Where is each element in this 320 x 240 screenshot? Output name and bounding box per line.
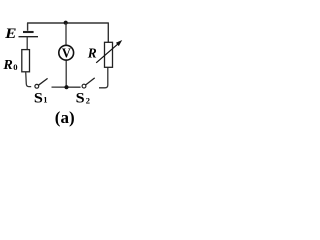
wire: middle branch upper (junction to voltmeter) (65, 23, 67, 46)
resistor R0 box (22, 50, 30, 72)
wire: top horizontal (28, 23, 109, 42)
background (0, 0, 128, 129)
rheostat R arrow (96, 42, 120, 63)
rheostat R box (105, 42, 113, 67)
svg-text:R: R (87, 45, 97, 60)
switch S1 lever (39, 78, 48, 85)
svg-text:1: 1 (43, 95, 47, 105)
node: bottom junction dot (64, 85, 68, 89)
svg-text:S: S (34, 90, 43, 106)
battery E plate long thin (19, 36, 39, 38)
svg-text:R: R (2, 57, 12, 73)
svg-text:(a): (a) (55, 108, 75, 127)
wire: R0 box to bottom-left corner (26, 72, 32, 87)
rheostat arrowhead (116, 40, 122, 46)
battery E plate short thick (23, 31, 34, 33)
svg-text:2: 2 (86, 95, 90, 105)
svg-text:V: V (62, 45, 72, 61)
wire: S2 to bottom-right corner (99, 68, 108, 88)
switch S2 contact circle (82, 84, 86, 88)
svg-text:0: 0 (13, 62, 17, 72)
node: top junction dot (64, 21, 68, 25)
svg-text:E: E (4, 26, 17, 42)
svg-text:S: S (76, 91, 85, 107)
voltmeter U1 circle (59, 45, 74, 60)
wire: S1 to junction (52, 86, 81, 88)
wire: battery to R0 box (26, 37, 28, 50)
switch S1 contact circle (35, 84, 39, 88)
switch S2 lever (86, 78, 95, 85)
wire: middle branch lower (voltmeter to bottom junction) (65, 60, 67, 87)
